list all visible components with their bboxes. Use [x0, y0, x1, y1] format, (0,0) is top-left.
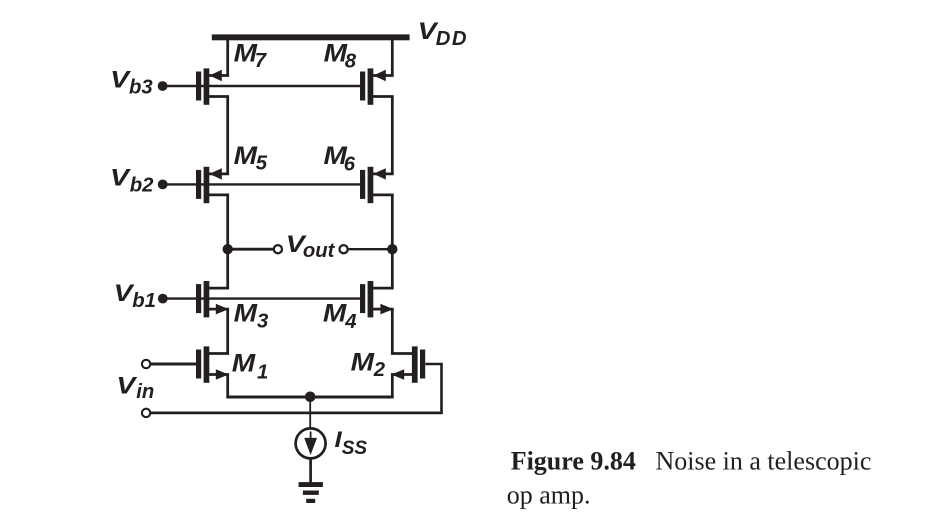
svg-text:Noise in a telescopic: Noise in a telescopic: [656, 447, 872, 476]
svg-text:b2: b2: [130, 175, 154, 197]
svg-text:2: 2: [373, 359, 386, 381]
svg-text:V: V: [116, 373, 137, 400]
svg-text:V: V: [110, 165, 131, 192]
svg-text:Figure 9.84: Figure 9.84: [511, 447, 636, 476]
svg-text:7: 7: [255, 50, 268, 72]
svg-text:M: M: [351, 349, 376, 377]
svg-text:1: 1: [257, 361, 268, 383]
svg-text:M: M: [234, 300, 259, 328]
svg-text:DD: DD: [436, 28, 468, 50]
svg-text:6: 6: [344, 154, 356, 176]
svg-text:in: in: [136, 381, 154, 403]
svg-text:M: M: [234, 142, 259, 170]
svg-text:5: 5: [256, 152, 268, 174]
svg-text:out: out: [303, 240, 336, 262]
svg-text:b1: b1: [132, 290, 156, 312]
svg-text:M: M: [232, 349, 257, 377]
svg-text:4: 4: [344, 311, 356, 333]
svg-text:op amp.: op amp.: [507, 480, 591, 509]
svg-text:b3: b3: [129, 77, 153, 99]
svg-text:M: M: [323, 299, 348, 327]
svg-text:SS: SS: [342, 438, 368, 459]
svg-text:8: 8: [345, 51, 357, 73]
svg-text:3: 3: [257, 311, 269, 333]
